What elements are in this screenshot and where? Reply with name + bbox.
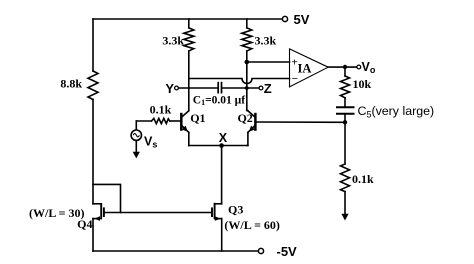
wire C5 to node [344, 114, 346, 123]
svg-text:10k: 10k [353, 77, 372, 91]
capacitor C5 plates [336, 106, 355, 108]
wire Q2 base to C5 node [257, 121, 345, 123]
resistor R 0.1k base [136, 120, 151, 122]
wire X to Q3 drain [221, 146, 223, 204]
svg-text:Z: Z [264, 81, 272, 96]
svg-text:+: + [292, 57, 298, 69]
wire left 3.3k column top [188, 19, 190, 28]
transistor Q2 [254, 113, 257, 131]
svg-text:(W/L = 60): (W/L = 60) [224, 218, 280, 232]
wire Q2 collector column [246, 51, 248, 111]
wire bottom -5V rail [93, 250, 258, 252]
wire plus input [247, 61, 290, 63]
node Y terminal [175, 86, 179, 90]
svg-text:Q2: Q2 [237, 111, 252, 125]
svg-text:Y: Y [165, 81, 174, 96]
svg-text:0.1k: 0.1k [150, 102, 172, 116]
svg-text:Q1: Q1 [190, 111, 205, 125]
source Vs [135, 121, 137, 130]
terminal -5V [258, 248, 263, 253]
svg-text:IA: IA [298, 61, 312, 75]
svg-text:−: − [292, 73, 298, 85]
wire minus input with hop over Q2 column [189, 79, 290, 84]
node Z terminal [259, 86, 263, 90]
terminal Vo [357, 65, 361, 69]
svg-text:3.3k: 3.3k [255, 34, 277, 48]
op-amp IA triangle [290, 49, 329, 87]
wire Q1 collector column [188, 51, 190, 111]
junction dot C5/base node [343, 120, 347, 124]
wire node to 0.1k [344, 122, 346, 164]
wire emitter rail [189, 145, 248, 147]
wire to ground arrow [344, 192, 346, 215]
wire left column lower [92, 100, 94, 204]
svg-text:8.8k: 8.8k [60, 77, 82, 91]
terminal 5V [282, 16, 287, 21]
wire capacitor to Z node [222, 87, 259, 89]
resistor R 3.3k left [184, 28, 194, 51]
junction dot output [343, 65, 347, 69]
wire Q4 gate-drain tie [93, 184, 121, 212]
capacitor C1 plates [217, 82, 219, 94]
svg-text:5V: 5V [294, 12, 310, 27]
resistor R 0.1k right [341, 164, 350, 192]
svg-text:X: X [219, 131, 228, 145]
junction dot Z-column [245, 86, 249, 90]
ground arrow under Vs [133, 152, 140, 159]
wire IA output [328, 66, 356, 68]
svg-text:C1=0.01 µf: C1=0.01 µf [193, 94, 245, 107]
transistor Q4 [93, 203, 100, 205]
wire right 3.3k column top [246, 19, 248, 28]
ground arrow bottom right [341, 214, 348, 221]
resistor R 3.3k right [242, 28, 252, 51]
svg-text:0.1k: 0.1k [352, 172, 374, 186]
svg-text:Q3: Q3 [228, 202, 243, 216]
wire left column upper [92, 19, 94, 71]
transistor Q3 [216, 203, 222, 205]
resistor R 8.8k [88, 71, 98, 100]
svg-text:-5V: -5V [277, 244, 298, 259]
svg-text:(W/L = 30): (W/L = 30) [29, 206, 85, 220]
wire gate to gate [105, 212, 211, 214]
svg-text:3.3k: 3.3k [162, 34, 184, 48]
wire Y to capacitor [179, 87, 218, 89]
resistor R 10k [344, 67, 346, 76]
junction dot plus [245, 60, 250, 65]
wire top 5V rail [93, 18, 282, 20]
transistor Q1 [180, 113, 183, 131]
node X [219, 143, 224, 148]
